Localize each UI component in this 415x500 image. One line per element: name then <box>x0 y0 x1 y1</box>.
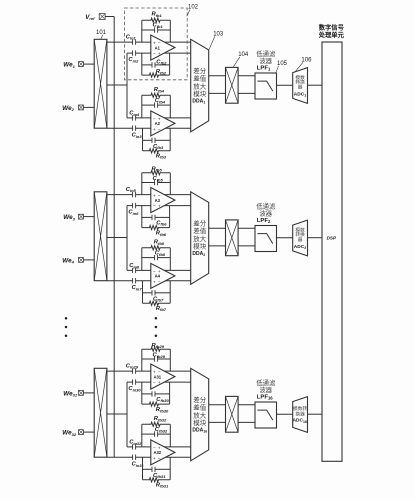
resistor Rfb8 <box>142 240 171 250</box>
svg-text:Cin6: Cin6 <box>128 210 139 216</box>
op-amp A4 <box>151 263 175 288</box>
svg-text:差分: 差分 <box>193 66 207 75</box>
capacitor Cin8 <box>129 263 140 273</box>
terminal We31 <box>63 390 94 397</box>
svg-text:Cfb3: Cfb3 <box>153 144 164 150</box>
wire mid rail <box>126 206 128 271</box>
svg-text:−: − <box>158 280 161 285</box>
svg-text:模块: 模块 <box>193 242 207 251</box>
svg-text:Cin8: Cin8 <box>129 263 140 269</box>
svg-text:+: + <box>153 456 156 461</box>
svg-text:Cfb6: Cfb6 <box>156 220 167 226</box>
terminal Vref <box>85 14 105 21</box>
svg-text:−: − <box>153 269 156 274</box>
capacitor Cin6 <box>128 203 139 216</box>
svg-text:Rfb31: Rfb31 <box>156 482 169 488</box>
svg-text:Cin32: Cin32 <box>129 440 142 446</box>
svg-text:+: + <box>158 204 161 209</box>
svg-text:Rfb6: Rfb6 <box>156 231 167 237</box>
low-pass filter LPF2 <box>255 202 277 252</box>
resistor Rfb6 <box>142 226 170 237</box>
resistor Rfb7 <box>143 301 171 312</box>
svg-text:+: + <box>158 446 161 451</box>
svg-text:模块: 模块 <box>193 418 207 427</box>
capacitor Cfb8 <box>142 251 171 261</box>
terminal We4 <box>62 257 94 264</box>
svg-text:−: − <box>153 380 156 385</box>
wire LPF to ADC <box>277 84 293 86</box>
svg-text:Cin7: Cin7 <box>132 285 143 291</box>
svg-text:LPF1: LPF1 <box>257 65 271 71</box>
differential difference amplifier DDA16 <box>191 368 209 461</box>
svg-text:101: 101 <box>96 30 107 36</box>
svg-text:LPF2: LPF2 <box>257 218 271 224</box>
label 101 <box>96 30 107 39</box>
svg-text:+: + <box>153 193 156 198</box>
wire bridge bottom to Cin bottom (node D) <box>107 280 191 282</box>
svg-text:Rfb7: Rfb7 <box>156 306 167 312</box>
svg-text:−: − <box>158 193 161 198</box>
svg-text:低通滤: 低通滤 <box>256 49 276 58</box>
vertical ellipsis middle <box>155 317 158 337</box>
svg-text:低通滤: 低通滤 <box>256 202 276 211</box>
bridge transducer (group 16) <box>94 368 107 457</box>
capacitor Cfb5 <box>142 176 171 185</box>
terminal We1 <box>63 62 94 69</box>
capacitor Cin2 <box>128 50 139 63</box>
chopper demodulator <box>226 67 239 103</box>
svg-text:Cfb4: Cfb4 <box>155 98 166 104</box>
wire DDA outputs to chopper <box>209 76 226 94</box>
chopper demodulator <box>226 396 239 432</box>
capacitor Cfb32 <box>142 427 171 437</box>
svg-text:处理单元: 处理单元 <box>318 30 345 39</box>
resistor Rfb31 <box>143 478 171 489</box>
svg-text:Cin2: Cin2 <box>128 57 139 63</box>
svg-text:放大: 放大 <box>193 81 207 90</box>
wire ADC to DSP <box>308 237 323 239</box>
terminal We3 <box>63 214 94 221</box>
capacitor Cfb3 <box>143 138 171 151</box>
capacitor Cin30 <box>128 379 141 392</box>
svg-text:DSP: DSP <box>327 236 337 241</box>
capacitor Cfb1 <box>142 23 171 33</box>
wire rail to Cin2 (node B) <box>127 205 191 207</box>
op-amp A2 <box>151 111 175 136</box>
svg-text:Rfb3: Rfb3 <box>156 153 167 159</box>
resistor Rfb32 <box>142 416 171 426</box>
capacitor Cin32 <box>129 440 142 450</box>
wire bridge to Cin top (node A) <box>107 370 191 372</box>
svg-text:Cfb7: Cfb7 <box>153 296 164 302</box>
svg-text:−: − <box>153 51 156 56</box>
capacitor Cfb7 <box>143 290 171 302</box>
svg-text:+: + <box>158 269 161 274</box>
analog-to-digital converter ADC1 <box>293 68 308 104</box>
capacitor Cin29 <box>126 363 139 373</box>
svg-text:Cfb8: Cfb8 <box>155 251 166 257</box>
svg-text:+: + <box>153 280 156 285</box>
capacitor Cin1 <box>126 34 137 44</box>
wire rail to Cin2 (node B) <box>127 52 191 54</box>
wire LPF to ADC <box>277 237 293 239</box>
svg-text:−: − <box>153 446 156 451</box>
svg-text:−: − <box>153 204 156 209</box>
svg-text:A1: A1 <box>155 45 161 50</box>
wire ADC to DSP <box>308 84 323 86</box>
svg-text:模块: 模块 <box>193 89 207 98</box>
svg-text:Rfb29: Rfb29 <box>152 343 165 349</box>
svg-text:Cfb5: Cfb5 <box>153 176 164 182</box>
capacitor Cfb29 <box>142 353 171 362</box>
terminal We32 <box>62 430 94 437</box>
svg-text:+: + <box>158 51 161 56</box>
svg-text:差值: 差值 <box>193 226 207 235</box>
svg-text:Rfb4: Rfb4 <box>154 87 165 93</box>
resistor Rfb3 <box>143 149 171 160</box>
op-amp A32 <box>151 440 175 465</box>
op-amp A3 <box>151 188 175 213</box>
svg-text:+: + <box>158 380 161 385</box>
wire chopper to LPF <box>238 228 255 246</box>
svg-text:A2: A2 <box>155 121 161 126</box>
wire rail to Cin top of second amp (node C) <box>127 117 191 119</box>
terminal We2 <box>62 105 94 112</box>
svg-text:Rfb1: Rfb1 <box>152 12 163 18</box>
svg-text:波器: 波器 <box>260 56 273 65</box>
resistor Rfb1 <box>142 12 171 23</box>
low-pass filter LPF16 <box>255 378 277 428</box>
svg-text:−: − <box>158 127 161 132</box>
chopper demodulator <box>226 220 239 256</box>
wire feedback rails of first amp top <box>142 20 171 42</box>
op-amp A1 <box>151 35 175 60</box>
svg-text:Rfb2: Rfb2 <box>156 69 167 75</box>
svg-text:Cfb31: Cfb31 <box>153 473 166 479</box>
svg-text:Cfb32: Cfb32 <box>155 427 168 433</box>
svg-text:换器: 换器 <box>295 410 305 417</box>
dashed module box 102 <box>124 8 187 80</box>
wire ADC to DSP <box>308 413 323 415</box>
svg-text:A4: A4 <box>155 274 161 279</box>
wire rail to Cin top of second amp (node C) <box>127 446 191 448</box>
svg-text:Rfb32: Rfb32 <box>154 416 167 422</box>
wire bridge mid tap <box>107 84 127 86</box>
svg-text:−: − <box>158 456 161 461</box>
capacitor Cfb2 <box>142 59 170 67</box>
wire feedback rails of second amp bottom <box>143 457 171 480</box>
wire feedback rails of first amp top <box>142 173 171 195</box>
svg-text:Rfb30: Rfb30 <box>156 407 169 413</box>
wire bridge to Cin top (node A) <box>107 194 191 196</box>
label 106 <box>295 58 313 73</box>
capacitor Cfb4 <box>142 98 171 108</box>
svg-text:A32: A32 <box>153 450 161 455</box>
capacitor Cin4 <box>129 111 140 121</box>
svg-text:A3: A3 <box>155 198 161 203</box>
svg-text:差值: 差值 <box>193 403 207 412</box>
capacitor Cin5 <box>126 187 137 197</box>
svg-text:Cfb29: Cfb29 <box>153 353 166 359</box>
svg-text:差分: 差分 <box>193 395 207 404</box>
label 104 <box>233 52 249 67</box>
label 102 <box>187 5 199 17</box>
wire bridge mid tap <box>107 237 127 239</box>
svg-text:差值: 差值 <box>193 74 207 83</box>
wire feedback rails of second amp bottom <box>143 128 171 151</box>
wire chopper to LPF <box>238 405 255 423</box>
wire feedback rails of first amp bottom <box>142 53 170 75</box>
analog-to-digital converter ADC2 <box>293 220 308 256</box>
wire feedback rails of first amp bottom <box>142 206 170 228</box>
svg-text:−: − <box>153 117 156 122</box>
svg-text:+: + <box>153 127 156 132</box>
differential difference amplifier DDA1 <box>191 39 209 132</box>
label 103 <box>209 32 224 50</box>
bridge transducer 101 <box>94 39 107 128</box>
wire rail to Cin2 (node B) <box>127 381 191 383</box>
svg-text:−: − <box>158 41 161 46</box>
digital signal processing unit DSP <box>318 23 345 462</box>
wire mid rail <box>126 382 128 447</box>
svg-text:Cin3: Cin3 <box>132 133 143 139</box>
svg-text:Rfb5: Rfb5 <box>152 166 163 172</box>
wire chopper to LPF <box>238 76 255 94</box>
resistor Rfb29 <box>142 343 171 351</box>
wire DDA outputs to chopper <box>209 228 226 246</box>
svg-text:差分: 差分 <box>193 218 207 227</box>
svg-text:A31: A31 <box>153 374 161 379</box>
svg-text:+: + <box>158 117 161 122</box>
svg-text:Cin1: Cin1 <box>126 34 137 40</box>
svg-text:低通滤: 低通滤 <box>256 378 276 387</box>
wire bridge mid tap <box>107 413 127 415</box>
differential difference amplifier DDA2 <box>191 192 209 284</box>
wire feedback rails of second amp top <box>142 424 171 447</box>
capacitor Cfb6 <box>142 215 170 227</box>
svg-text:102: 102 <box>188 5 199 11</box>
resistor Rfb4 <box>142 87 171 97</box>
wire bridge bottom to Cin bottom (node D) <box>107 456 191 458</box>
resistor Rfb5 <box>142 166 171 174</box>
capacitor Cfb31 <box>143 467 171 479</box>
capacitor Cin31 <box>132 455 145 468</box>
svg-text:波器: 波器 <box>260 385 273 394</box>
svg-text:波器: 波器 <box>260 208 273 217</box>
svg-text:Cin5: Cin5 <box>126 187 137 193</box>
svg-text:+: + <box>153 370 156 375</box>
wire feedback rails of second amp top <box>142 248 171 271</box>
svg-text:+: + <box>153 41 156 46</box>
wire Vref to bus <box>105 16 114 18</box>
svg-text:Cin4: Cin4 <box>129 111 140 117</box>
wire feedback rails of first amp bottom <box>142 382 170 404</box>
svg-text:LPF16: LPF16 <box>257 394 273 400</box>
label 105 <box>276 61 288 73</box>
svg-text:Cin30: Cin30 <box>128 386 141 392</box>
wire bridge bottom to Cin bottom (node D) <box>107 127 191 129</box>
wire bridge to Cin top (node A) <box>107 41 191 43</box>
bridge transducer (group 2) <box>94 192 107 281</box>
svg-text:Rfb8: Rfb8 <box>154 240 165 246</box>
wire LPF to ADC <box>277 413 293 415</box>
svg-text:放大: 放大 <box>193 410 207 419</box>
capacitor Cin7 <box>132 278 143 291</box>
low-pass filter LPF1 <box>255 49 277 99</box>
svg-text:数字信号: 数字信号 <box>319 23 345 32</box>
wire rail to Cin top of second amp (node C) <box>127 269 191 271</box>
wire DDA outputs to chopper <box>209 405 226 423</box>
analog-to-digital converter ADC16 <box>293 397 308 433</box>
resistor Rfb30 <box>142 402 170 413</box>
capacitor Cin3 <box>132 126 143 139</box>
svg-text:Cin29: Cin29 <box>126 363 139 369</box>
wire feedback rails of second amp bottom <box>143 281 171 304</box>
wire Vref bus <box>113 17 115 458</box>
svg-text:放大: 放大 <box>193 234 207 243</box>
capacitor Cfb30 <box>142 391 170 403</box>
resistor Rfb2 <box>142 69 170 77</box>
svg-text:Cfb1: Cfb1 <box>153 23 164 29</box>
svg-text:−: − <box>158 370 161 375</box>
svg-text:Cfb30: Cfb30 <box>156 397 169 403</box>
vertical ellipsis left <box>65 317 68 337</box>
wire feedback rails of first amp top <box>142 349 171 371</box>
wire mid rail <box>126 53 128 118</box>
wire feedback rails of second amp top <box>142 95 171 118</box>
op-amp A31 <box>151 364 175 389</box>
svg-text:Cfb2: Cfb2 <box>156 59 167 65</box>
